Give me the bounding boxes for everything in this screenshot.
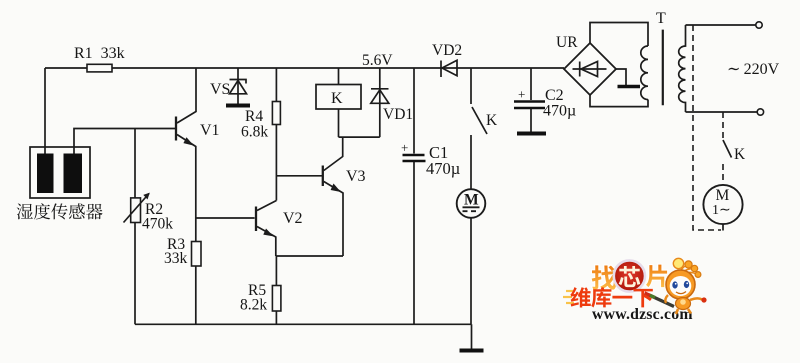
relay coil K (316, 68, 361, 137)
wire: bridge top to transformer secondary top (590, 23, 648, 47)
svg-text:470µ: 470µ (426, 159, 460, 178)
svg-text:V1: V1 (200, 122, 220, 139)
svg-text:6.8k: 6.8k (241, 124, 268, 141)
humidity sensor (box with two electrodes) (30, 147, 90, 198)
watermark magnifier with 芯 (614, 260, 645, 291)
svg-text:+: + (401, 140, 408, 155)
wire: V1 emitter to V2 base (196, 217, 255, 219)
svg-text:V2: V2 (283, 210, 303, 227)
wire: left drop to sensor (44, 68, 46, 154)
watermark text 片 (646, 265, 667, 288)
zener diode VS (230, 68, 247, 104)
svg-text:K: K (486, 112, 498, 129)
wire: V3 base to R4/V2 node (276, 175, 322, 177)
mascot figure (665, 258, 706, 314)
terminal (top 220V) (756, 22, 762, 28)
watermark speed streaks (563, 291, 574, 303)
watermark magnifier handle / pen (645, 293, 675, 307)
svg-text:M: M (464, 192, 479, 209)
svg-text:VD1: VD1 (383, 106, 413, 123)
resistor R1 (87, 64, 112, 72)
wire: bottom ground rail (135, 323, 472, 325)
wire: V2 emitter junction to R5 and V3 emitter (276, 255, 343, 257)
svg-text:T: T (656, 10, 666, 27)
svg-text:33k: 33k (164, 250, 188, 267)
svg-text:www.dzsc.com: www.dzsc.com (592, 306, 693, 323)
svg-text:5.6V: 5.6V (362, 52, 393, 69)
resistor R4 (272, 102, 280, 125)
resistor R3 (192, 242, 202, 267)
transformer T secondary winding (641, 46, 648, 100)
DC motor M (middle) (457, 189, 486, 324)
transistor V1 (176, 68, 196, 242)
watermark text 维库一下 (570, 287, 652, 307)
bridge rectifier UR (564, 43, 616, 95)
AC motor M 1~ (fan) (703, 185, 742, 224)
wire: sensor right electrode to V1 base (74, 129, 176, 155)
resistor R5 (272, 286, 281, 312)
svg-text:K: K (734, 146, 746, 163)
wire: bridge bottom to transformer secondary bottom (590, 95, 648, 107)
wire: R4 branch from rail down to V2 collector (275, 68, 277, 201)
wire: V1 emitter down through R3 to bottom rail (195, 242, 197, 324)
ground bar at bridge (618, 85, 641, 89)
potentiometer R2 (124, 129, 150, 325)
svg-text:V3: V3 (346, 168, 366, 185)
svg-text:UR: UR (556, 34, 578, 51)
transformer core (662, 30, 664, 106)
wire: motor bottom stub (722, 225, 724, 231)
wire: primary top to terminal (686, 24, 756, 26)
label 湿度传感器 (humidity sensor) (17, 203, 103, 219)
svg-text:∼ 220V: ∼ 220V (727, 61, 780, 78)
wire: R5 branch down to bottom rail (275, 256, 277, 324)
svg-text:VS: VS (210, 81, 230, 98)
ground bar below C2 (517, 132, 546, 136)
svg-text:470µ: 470µ (543, 103, 576, 120)
ground symbol (main) (460, 324, 484, 350)
terminal (bottom 220V) (757, 109, 763, 115)
transformer T primary winding (679, 25, 686, 112)
wire: top 5.6V supply rail (45, 67, 564, 69)
svg-text:8.2k: 8.2k (240, 297, 267, 314)
relay contact K (middle) (471, 68, 487, 189)
capacitor C2 (514, 68, 545, 132)
wire: bridge right to ground stub (616, 69, 626, 85)
wire: relay bottom node to VD1 anode (339, 136, 380, 138)
svg-text:R4: R4 (245, 108, 263, 125)
svg-text:1∼: 1∼ (712, 203, 731, 218)
svg-text:R1 33k: R1 33k (74, 45, 125, 62)
wire: primary bottom to terminal (686, 111, 758, 113)
relay contact K (mains, dashed) (723, 112, 732, 184)
transistor V2 (256, 201, 276, 257)
diode VD1 (371, 68, 389, 137)
dashed mains wire: left leg from top line down and to motor bottom (693, 25, 721, 230)
svg-text:K: K (331, 90, 343, 107)
capacitor C1 (401, 68, 426, 324)
svg-text:M: M (716, 187, 730, 204)
ground bar below VS (226, 104, 250, 108)
transistor V3 (323, 137, 343, 256)
svg-text:470k: 470k (142, 216, 173, 233)
svg-text:VD2: VD2 (432, 42, 462, 59)
svg-text:C2: C2 (545, 87, 564, 104)
diode VD2 (on rail) (441, 60, 457, 77)
watermark text 找 (592, 265, 617, 289)
svg-text:+: + (518, 87, 525, 102)
